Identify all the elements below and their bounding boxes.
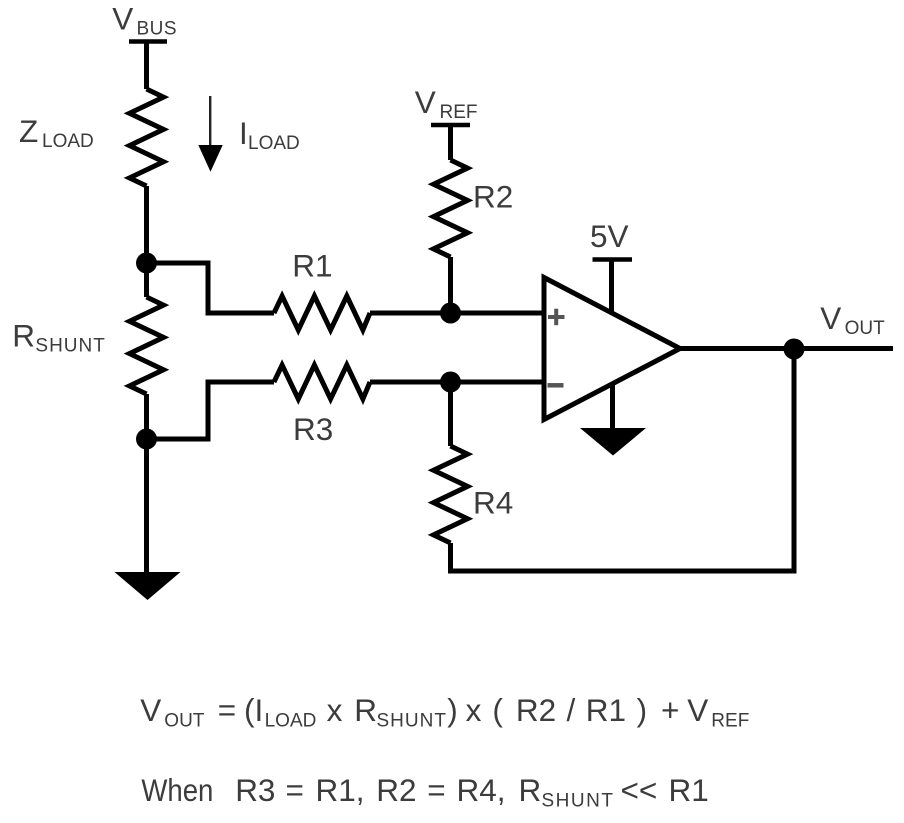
svg-text:V: V bbox=[140, 692, 161, 728]
svg-text:I: I bbox=[239, 115, 248, 151]
svg-text:SHUNT: SHUNT bbox=[35, 336, 105, 357]
svg-text:R3: R3 bbox=[293, 411, 333, 447]
svg-text:x: x bbox=[466, 692, 482, 728]
svg-text:BUS: BUS bbox=[137, 18, 178, 39]
svg-text:=: = bbox=[286, 772, 304, 808]
svg-text:+: + bbox=[661, 692, 679, 728]
svg-text:Z: Z bbox=[19, 113, 38, 149]
svg-text:LOAD: LOAD bbox=[265, 711, 317, 732]
svg-text:V: V bbox=[820, 300, 841, 336]
svg-text:R2: R2 bbox=[376, 772, 416, 808]
svg-text:LOAD: LOAD bbox=[248, 133, 300, 154]
svg-text:R1: R1 bbox=[292, 248, 332, 284]
svg-text:<<: << bbox=[621, 772, 658, 808]
svg-text:(: ( bbox=[492, 692, 503, 728]
svg-text:R: R bbox=[12, 318, 35, 354]
svg-text:R1: R1 bbox=[669, 772, 709, 808]
svg-text:V: V bbox=[415, 84, 436, 120]
svg-text:LOAD: LOAD bbox=[42, 131, 94, 152]
svg-text:R2: R2 bbox=[473, 179, 513, 215]
svg-text:/: / bbox=[567, 692, 576, 728]
svg-text:REF: REF bbox=[711, 711, 749, 732]
svg-text:V: V bbox=[687, 692, 708, 728]
svg-text:R1: R1 bbox=[586, 692, 626, 728]
svg-text:R: R bbox=[354, 692, 377, 728]
svg-text:=: = bbox=[218, 692, 236, 728]
svg-text:=: = bbox=[427, 772, 445, 808]
svg-text:5V: 5V bbox=[590, 218, 629, 254]
svg-text:When: When bbox=[141, 772, 213, 808]
svg-text:R1,: R1, bbox=[316, 772, 365, 808]
svg-text:): ) bbox=[637, 692, 648, 728]
svg-text:x: x bbox=[327, 692, 343, 728]
svg-text:R: R bbox=[519, 772, 542, 808]
svg-text:OUT: OUT bbox=[845, 318, 886, 339]
svg-text:R3: R3 bbox=[235, 772, 275, 808]
svg-text:V: V bbox=[112, 0, 133, 36]
svg-text:R4,: R4, bbox=[457, 772, 506, 808]
svg-text:SHUNT: SHUNT bbox=[377, 711, 447, 732]
svg-text:REF: REF bbox=[440, 102, 478, 123]
svg-text:(I: (I bbox=[244, 692, 263, 728]
svg-text:): ) bbox=[447, 692, 458, 728]
svg-text:R2: R2 bbox=[516, 692, 556, 728]
svg-text:SHUNT: SHUNT bbox=[542, 791, 615, 812]
svg-text:OUT: OUT bbox=[164, 711, 205, 732]
svg-text:R4: R4 bbox=[473, 485, 513, 521]
